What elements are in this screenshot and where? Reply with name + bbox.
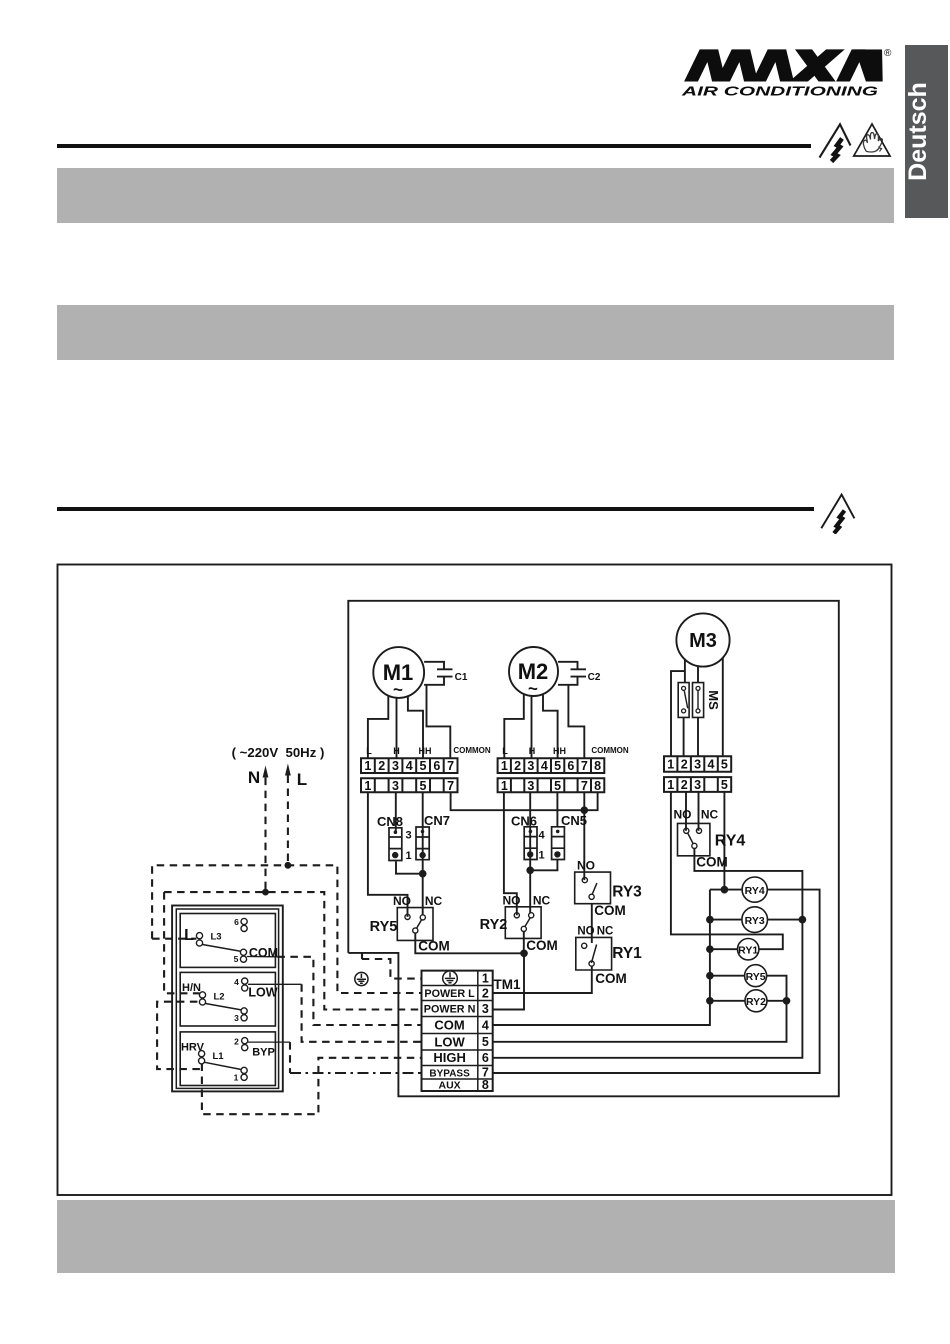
svg-text:4: 4 <box>541 759 548 773</box>
rule 2 <box>57 507 814 511</box>
power L arrowhead <box>285 764 291 776</box>
svg-text:COM: COM <box>418 939 450 954</box>
svg-text:TM1: TM1 <box>494 977 521 992</box>
svg-text:CN7: CN7 <box>424 813 450 828</box>
svg-text:3: 3 <box>527 759 534 773</box>
motor M2 <box>509 647 558 696</box>
svg-text:C2: C2 <box>588 672 601 683</box>
svg-text:4: 4 <box>234 977 239 987</box>
svg-text:1: 1 <box>482 972 489 986</box>
wire M3-2:5 to RY4 coil node <box>723 792 725 890</box>
wire CN8 to node A <box>396 861 423 873</box>
svg-text:6: 6 <box>433 759 440 773</box>
svg-text:1: 1 <box>364 759 371 773</box>
svg-text:3: 3 <box>392 779 399 793</box>
wire RY5 coil row to TM1-5 low <box>493 976 787 1042</box>
node J RY3 coil right <box>800 917 806 923</box>
wire M2-2:3 through CN6 to RY2 NC <box>529 792 531 913</box>
svg-text:4: 4 <box>708 758 715 772</box>
bottom band <box>57 1200 895 1273</box>
wire M2 lead H <box>531 696 533 758</box>
wire N rect to L2 and TM1-3 <box>164 892 421 1009</box>
terminal block TM1 <box>422 971 493 1091</box>
warning triangle electric 2 <box>815 488 860 534</box>
svg-text:2: 2 <box>482 986 489 1000</box>
svg-text:BYP: BYP <box>252 1047 275 1059</box>
wire RY4 COM to RY3 coil node to TM1-6 <box>493 849 803 1058</box>
svg-text:CN6: CN6 <box>511 814 537 829</box>
wire M1 lead H <box>396 698 398 758</box>
wire M2-2:1 to RY2 NO <box>504 792 517 915</box>
svg-text:RY4: RY4 <box>745 885 765 897</box>
svg-text:COMMON: COMMON <box>453 746 491 755</box>
labels M1 strip row2 <box>364 779 454 793</box>
wire C1 to M1 terminal 7 <box>427 685 451 758</box>
svg-text:N: N <box>248 768 260 787</box>
wire M2 lead HH <box>543 695 558 758</box>
svg-text:NO: NO <box>393 894 411 908</box>
node E junction M3-5 coil <box>722 887 728 893</box>
svg-text:3: 3 <box>234 1013 239 1023</box>
svg-text:L3: L3 <box>211 932 222 943</box>
svg-text:1: 1 <box>501 759 508 773</box>
wire M3-2:1 to RY1 coil <box>671 792 783 949</box>
svg-text:RY3: RY3 <box>745 915 765 927</box>
relay contact RY4 <box>678 823 710 855</box>
svg-text:3: 3 <box>527 779 534 793</box>
svg-text:~: ~ <box>528 679 538 698</box>
svg-text:4: 4 <box>406 759 413 773</box>
svg-text:NC: NC <box>701 808 719 822</box>
dashed power and control wiring <box>152 776 421 1115</box>
svg-text:COM: COM <box>594 903 626 918</box>
wire M2 lead L <box>504 695 524 758</box>
svg-text:2: 2 <box>681 778 688 792</box>
relay coil RY5 <box>745 965 767 987</box>
svg-text:COM: COM <box>595 971 627 986</box>
relay contact RY5 <box>397 908 433 941</box>
connector CN5 <box>552 827 565 860</box>
relay coil RY3 <box>742 907 768 933</box>
svg-text:NC: NC <box>425 894 443 908</box>
svg-text:L: L <box>297 770 307 789</box>
wire power N drop <box>264 778 266 893</box>
wire C2 to M2 terminal 7 <box>568 685 584 758</box>
svg-text:NC: NC <box>597 926 614 938</box>
wire M1-2:3 to CN8 <box>395 792 397 831</box>
power N arrowhead <box>263 766 269 778</box>
wire RY5 COM to node D <box>415 933 524 953</box>
ground TM1 terminal 1 <box>443 971 458 986</box>
terminal strip M2 row 1 <box>498 758 605 773</box>
switch L2 contacts <box>199 978 247 1021</box>
wire LOW riser to TM1-5 <box>302 984 422 1042</box>
svg-text:3: 3 <box>694 778 701 792</box>
svg-text:RY1: RY1 <box>738 944 758 956</box>
wire COM riser to TM1-4 <box>277 957 421 1025</box>
capacitor C2 <box>558 662 586 685</box>
svg-text:RY4: RY4 <box>715 833 746 850</box>
svg-text:7: 7 <box>447 779 454 793</box>
svg-text:LOW: LOW <box>248 986 277 1000</box>
svg-text:COMMON: COMMON <box>591 746 629 755</box>
connector CN8 <box>389 828 402 861</box>
wire M3-2:3 to RY4 NC <box>698 792 700 831</box>
svg-text:8: 8 <box>594 759 601 773</box>
svg-text:COM: COM <box>526 938 558 953</box>
wire M3-2:2 to RY4 NO <box>685 792 687 831</box>
node K RY2 coil right <box>784 998 790 1004</box>
terminal strip M3 row 2 <box>664 777 731 792</box>
circuit inner box <box>348 601 839 1097</box>
svg-text:CN5: CN5 <box>561 813 587 828</box>
switch L1 box <box>180 1032 275 1086</box>
wire M1-2:5 through CN7 to RY5 NC <box>422 792 424 915</box>
node power N junction <box>262 889 269 896</box>
switch MS contact 1 <box>678 683 689 718</box>
wire L2 spare loop <box>157 1002 202 1069</box>
svg-text:7: 7 <box>581 779 588 793</box>
svg-text:HH: HH <box>553 746 566 756</box>
svg-text:1: 1 <box>406 850 412 862</box>
svg-text:COM: COM <box>249 946 278 960</box>
warning triangle electric 1 <box>812 118 858 164</box>
svg-text:5: 5 <box>482 1035 489 1049</box>
svg-text:L: L <box>502 746 508 756</box>
svg-text:6: 6 <box>482 1051 489 1065</box>
svg-text:1: 1 <box>667 778 674 792</box>
wire RY3 coil row <box>710 919 803 921</box>
node H bus RY5 row <box>707 973 713 979</box>
motor M3 <box>676 613 729 666</box>
wire M3 right lead <box>722 658 724 757</box>
svg-text:H: H <box>529 746 536 756</box>
title band 2 <box>57 305 894 360</box>
relay contact RY1 <box>576 937 612 970</box>
svg-text:7: 7 <box>581 759 588 773</box>
connector CN6 <box>524 827 537 860</box>
terminal strip M2 row 2 <box>498 778 605 792</box>
wire M3 left lead through MS1 <box>671 660 685 757</box>
labels M3 strip row2 <box>667 778 728 792</box>
svg-text:BYPASS: BYPASS <box>429 1068 470 1079</box>
wire RY1 COM to TM1-2 <box>493 966 592 993</box>
node power L junction <box>285 862 292 869</box>
svg-text:AUX: AUX <box>439 1080 461 1092</box>
svg-text:7: 7 <box>447 759 454 773</box>
rule 1 <box>57 144 811 149</box>
svg-text:RY2: RY2 <box>746 996 766 1008</box>
svg-text:M3: M3 <box>689 630 717 652</box>
svg-text:RY5: RY5 <box>370 919 398 935</box>
wire coil bus to TM1-4 com <box>493 890 710 1025</box>
svg-text:8: 8 <box>594 779 601 793</box>
node G bus RY1 row <box>707 946 713 952</box>
wire ground entry to TM1-1 <box>362 953 422 979</box>
svg-text:COM: COM <box>434 1018 464 1033</box>
switch L3 box <box>180 914 275 968</box>
svg-text:NO: NO <box>503 894 521 908</box>
svg-text:1: 1 <box>667 758 674 772</box>
wire power L drop <box>287 776 289 866</box>
node I bus RY2 row <box>707 998 713 1004</box>
svg-text:5: 5 <box>721 758 728 772</box>
wire RY2 COM to node D to TM1-3 <box>493 932 524 1010</box>
svg-text:3: 3 <box>406 830 412 842</box>
svg-text:H/N: H/N <box>182 982 201 994</box>
wire switch 2 to BYP riser <box>248 1041 290 1043</box>
svg-text:2: 2 <box>234 1037 239 1047</box>
svg-text:MS: MS <box>706 690 721 710</box>
node D junction RY2 COM <box>521 950 527 956</box>
title band 1 <box>57 168 894 223</box>
relay contact RY2 <box>505 907 541 939</box>
node A junction CN8-CN7 <box>420 871 426 877</box>
relay coil RY4 <box>742 877 767 902</box>
svg-text:NO: NO <box>577 926 594 938</box>
terminal strip M1 row 1 <box>361 758 458 773</box>
wire M1-2:1 to RY5 NO <box>368 792 408 917</box>
switch MS contact 2 <box>693 683 704 718</box>
wire RY3 COM to RY1 NC <box>591 904 593 943</box>
diagram outer frame <box>58 565 892 1196</box>
svg-text:POWER L: POWER L <box>424 988 475 1000</box>
wire HIGH loop L1 to TM1-6 <box>202 1058 422 1114</box>
svg-text:2: 2 <box>378 759 385 773</box>
Deutsch tab <box>905 45 948 219</box>
svg-text:L: L <box>184 927 194 944</box>
svg-text:NO: NO <box>674 808 692 822</box>
svg-text:4: 4 <box>482 1019 489 1033</box>
svg-text:L1: L1 <box>213 1051 225 1062</box>
svg-text:LOW: LOW <box>434 1034 465 1049</box>
svg-text:( ~220V 50Hz ): ( ~220V 50Hz ) <box>232 745 325 760</box>
wire switch 4 to LOW riser <box>248 983 302 985</box>
svg-text:HRV: HRV <box>181 1042 205 1054</box>
svg-text:~: ~ <box>393 680 403 699</box>
svg-text:1: 1 <box>364 779 371 793</box>
svg-text:C1: C1 <box>455 672 468 683</box>
svg-text:6: 6 <box>234 917 239 927</box>
svg-text:8: 8 <box>482 1078 489 1092</box>
svg-text:RY5: RY5 <box>746 971 766 983</box>
svg-text:CN8: CN8 <box>377 814 403 829</box>
svg-text:5: 5 <box>420 779 427 793</box>
wire coil bus RY4 row <box>710 889 742 891</box>
svg-text:3: 3 <box>482 1002 489 1016</box>
wire RY2 coil row <box>710 1000 787 1002</box>
svg-text:5: 5 <box>554 759 561 773</box>
wire M1-2:7 to M2-2:8 common link <box>451 792 598 810</box>
relay coil RY1 <box>738 939 759 960</box>
wire L rect to L3 and TM1-2 <box>152 865 421 993</box>
wire RY4 coil to TM1-7 bypass <box>493 890 820 1073</box>
svg-text:5: 5 <box>234 954 239 964</box>
wire RY1 coil left stub <box>710 948 738 950</box>
svg-text:L2: L2 <box>214 992 225 1003</box>
wire switch COM to COM riser <box>247 956 278 958</box>
svg-text:1: 1 <box>501 779 508 793</box>
motor M1 <box>373 647 424 698</box>
svg-text:6: 6 <box>567 759 574 773</box>
wire BYP dash-dot to TM1-7 <box>290 1072 422 1074</box>
labels M2 strip row2 <box>501 779 601 793</box>
terminal strip M3 row 1 <box>664 756 731 772</box>
svg-text:3: 3 <box>694 758 701 772</box>
svg-text:RY3: RY3 <box>612 884 642 901</box>
svg-text:3: 3 <box>392 759 399 773</box>
svg-text:POWER N: POWER N <box>424 1004 476 1016</box>
svg-text:L: L <box>366 746 372 756</box>
wire M1 lead HH <box>408 696 423 758</box>
svg-text:2: 2 <box>514 759 521 773</box>
switch L1 contacts <box>199 1038 248 1081</box>
capacitor C1 <box>424 662 452 685</box>
svg-text:5: 5 <box>554 779 561 793</box>
remote switch assembly outer case <box>172 906 283 1092</box>
svg-text:H: H <box>393 746 400 756</box>
svg-text:RY1: RY1 <box>612 945 642 962</box>
wire BYP riser <box>289 1042 291 1073</box>
wire M2-2:7 to RY3 NO <box>583 792 585 880</box>
svg-text:NO: NO <box>577 859 595 873</box>
svg-text:5: 5 <box>721 778 728 792</box>
node B junction CN6-CN5 <box>527 867 533 873</box>
svg-text:4: 4 <box>539 830 546 842</box>
switch L3 contacts <box>196 918 247 962</box>
terminal strip M1 row 2 <box>361 778 458 792</box>
svg-text:NC: NC <box>533 894 551 908</box>
wire M2-2:5 to CN5 to node B <box>530 792 557 870</box>
ground chassis <box>355 972 368 985</box>
svg-text:HH: HH <box>419 746 432 756</box>
MAXA logo <box>675 42 895 102</box>
svg-text:2: 2 <box>681 758 688 772</box>
switch L2 box <box>180 972 275 1026</box>
svg-text:1: 1 <box>234 1073 239 1083</box>
warning triangle hand <box>848 118 896 162</box>
svg-text:RY2: RY2 <box>480 917 508 933</box>
wire M1 lead L <box>368 696 388 758</box>
relay contact RY3 <box>575 872 611 904</box>
node C junction common link <box>581 807 587 813</box>
connector CN7 <box>416 827 429 860</box>
svg-text:HIGH: HIGH <box>433 1050 466 1065</box>
svg-text:5: 5 <box>420 759 427 773</box>
node F bus RY3 row <box>707 917 713 923</box>
labels M3 strip row1 <box>667 758 728 772</box>
svg-text:1: 1 <box>539 850 545 862</box>
relay coil RY2 <box>745 990 767 1012</box>
svg-text:COM: COM <box>696 855 728 870</box>
wire M3 mid lead through MS2 <box>697 666 699 757</box>
